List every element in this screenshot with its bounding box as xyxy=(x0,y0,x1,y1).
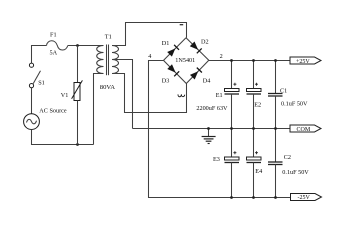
capacitor C1 xyxy=(268,61,283,129)
node junction E2 top xyxy=(252,59,255,62)
svg-text:1N5401: 1N5401 xyxy=(175,57,195,64)
pin label 1 (rotated) xyxy=(180,24,184,25)
svg-text:2200uF 63V: 2200uF 63V xyxy=(196,105,228,112)
transformer T1 secondary coil xyxy=(112,46,119,74)
pin label 3 (rotated) xyxy=(178,94,185,96)
transformer core xyxy=(107,45,109,76)
node junction E4 COM xyxy=(252,127,255,130)
wire top-left corner to fuse xyxy=(32,46,47,64)
wire secondary bottom to bridge node 3 xyxy=(112,74,187,113)
wire bridge node 4 to negative rail xyxy=(149,61,291,198)
capacitor E2 xyxy=(247,61,262,129)
node junction E3 bottom xyxy=(230,196,233,199)
net flag COM xyxy=(290,125,321,133)
svg-text:-25V: -25V xyxy=(298,195,311,201)
diode D3 xyxy=(167,64,179,76)
svg-text:E2: E2 xyxy=(254,102,261,109)
node junction C2 COM xyxy=(274,127,277,130)
svg-text:C2: C2 xyxy=(284,154,291,161)
varistor V1 xyxy=(72,46,83,145)
capacitor E1 xyxy=(225,61,240,129)
capacitor E3 xyxy=(225,129,240,198)
wire fuse to transformer primary xyxy=(68,45,104,47)
wire center tap to COM rail xyxy=(112,60,133,129)
diode D4 xyxy=(190,68,202,80)
wire switch to AC source xyxy=(31,88,33,114)
COM rail xyxy=(133,128,291,130)
fuse F1 xyxy=(47,41,68,50)
capacitor C2 xyxy=(268,129,283,198)
wire primary bottom xyxy=(94,74,104,145)
svg-text:D1: D1 xyxy=(162,40,170,47)
svg-text:COM: COM xyxy=(297,127,311,133)
node junction E3 COM xyxy=(230,127,233,130)
svg-text:F1: F1 xyxy=(50,31,57,38)
capacitor E4 xyxy=(247,129,262,198)
transformer T1 primary coil xyxy=(97,46,104,74)
svg-text:C1: C1 xyxy=(280,87,287,94)
svg-text:D4: D4 xyxy=(203,77,211,84)
wire bridge node 2 to positive rail xyxy=(209,60,290,62)
node junction C1 top xyxy=(274,59,277,62)
svg-text:+25V: +25V xyxy=(296,59,310,65)
svg-text:2: 2 xyxy=(220,53,223,60)
diode D1 xyxy=(167,45,179,57)
svg-text:S1: S1 xyxy=(38,80,45,87)
node junction C2 bottom xyxy=(274,196,277,199)
ground xyxy=(202,129,216,144)
node junction V1 bottom xyxy=(76,143,79,146)
svg-text:T1: T1 xyxy=(105,34,112,41)
AC source xyxy=(24,114,40,130)
diode D2 xyxy=(190,42,202,54)
net flag +25V xyxy=(290,57,321,65)
svg-text:E4: E4 xyxy=(255,168,262,175)
wire secondary top to bridge node 1 xyxy=(112,23,187,46)
wire AC source to bottom rail xyxy=(32,130,94,145)
svg-text:0.1uF 50V: 0.1uF 50V xyxy=(282,169,309,176)
bridge diamond edges xyxy=(164,38,209,84)
svg-text:D3: D3 xyxy=(162,77,170,84)
svg-text:E3: E3 xyxy=(213,156,220,163)
svg-text:E1: E1 xyxy=(216,92,223,99)
svg-text:4: 4 xyxy=(148,53,151,60)
svg-text:80VA: 80VA xyxy=(100,84,116,91)
net flag -25V xyxy=(291,194,322,201)
svg-text:0.1uF 50V: 0.1uF 50V xyxy=(281,101,308,108)
node junction ground on COM xyxy=(207,127,210,130)
node junction E4 bottom xyxy=(252,196,255,199)
svg-text:D2: D2 xyxy=(201,38,209,45)
node junction fuse/V1 xyxy=(76,44,79,47)
node junction E1 top xyxy=(230,59,233,62)
switch S1 xyxy=(29,63,40,88)
svg-text:V1: V1 xyxy=(61,92,69,99)
svg-text:5A: 5A xyxy=(50,49,58,56)
svg-text:AC Source: AC Source xyxy=(39,108,67,115)
